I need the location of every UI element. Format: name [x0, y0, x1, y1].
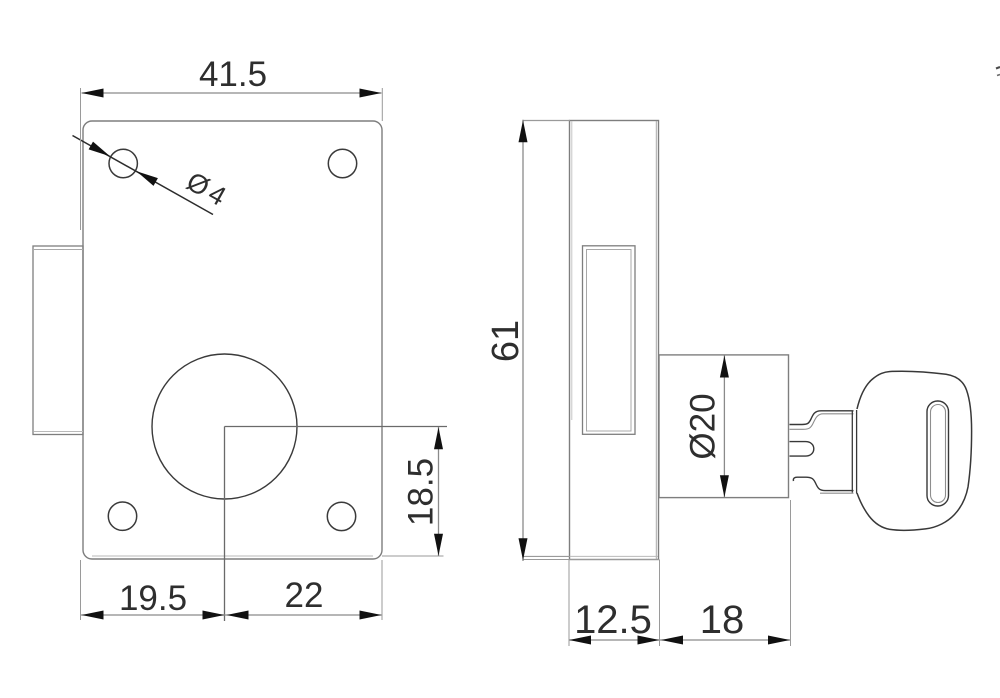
- dimension 41.5 arrow right: [360, 89, 382, 98]
- stray mark top right: [996, 67, 1000, 69]
- key shaft bottom inner: [820, 492, 854, 494]
- hole top-right: [328, 149, 356, 177]
- hole top-left: [109, 149, 137, 177]
- dimension 41.5 arrow left: [82, 89, 104, 98]
- key shaft bottom outer: [793, 477, 853, 490]
- leader arrow upper: [89, 142, 110, 157]
- dimension 41.5 extension right: [381, 88, 383, 121]
- key collar right line: [856, 410, 858, 494]
- lock plate outline (front view): [83, 121, 382, 559]
- key shaft top neck inner: [790, 414, 854, 430]
- leader arrow lower: [137, 171, 158, 186]
- dim 18 arrow left: [661, 636, 683, 645]
- key blade tab: [790, 442, 814, 457]
- side body inner right line: [655, 121, 657, 559]
- centerline vertical from bore center: [224, 427, 226, 622]
- dim 18 arrow right: [768, 636, 790, 645]
- tab top inner line: [34, 249, 83, 251]
- cylinder side rectangle: [659, 355, 789, 498]
- dim 61 arrow up: [519, 120, 528, 142]
- hole bottom-left: [108, 502, 136, 530]
- bottom dimension line: [81, 614, 382, 616]
- dimension 41.5 line: [82, 92, 382, 94]
- dim 18.5 arrow up: [434, 427, 443, 449]
- dim 18.5 line: [438, 427, 440, 556]
- svg-text:41.5: 41.5: [199, 55, 267, 94]
- plate bottom inner edge line: [92, 555, 373, 557]
- svg-text:18: 18: [700, 598, 745, 642]
- hole bottom-right: [327, 502, 355, 530]
- dim 61 top extension: [523, 120, 571, 122]
- dim 22 arrow right: [360, 611, 382, 620]
- key head outline: [857, 371, 972, 530]
- dim 12.5 arrow right: [638, 636, 660, 645]
- dim 61 bottom extension: [523, 555, 571, 557]
- centerline horizontal from bore center: [225, 426, 448, 428]
- left mounting tab: [33, 246, 83, 435]
- key ring slot inner: [931, 405, 946, 503]
- dim 20 line: [723, 356, 725, 498]
- side slot outer: [583, 246, 636, 434]
- side view body: [570, 121, 659, 560]
- side body inner left line: [571, 121, 573, 420]
- bottom right dim line: [569, 639, 790, 641]
- side slot inner: [587, 250, 632, 432]
- dim 22 arrow left: [227, 611, 249, 620]
- ext line left (12.5): [568, 560, 570, 647]
- dimension 41.5 extension left: [80, 88, 82, 230]
- svg-text:19.5: 19.5: [119, 579, 187, 618]
- svg-text:22: 22: [285, 576, 324, 615]
- dim 18.5 arrow down: [434, 534, 443, 556]
- dim 20 arrow down: [720, 475, 729, 497]
- dim 61 arrow down: [519, 538, 528, 560]
- bottom extension right: [381, 560, 383, 620]
- svg-text:18.5: 18.5: [402, 458, 441, 526]
- tab bottom inner line: [34, 431, 83, 433]
- dim 18.5 bottom extension: [382, 555, 444, 557]
- cylinder bore circle: [152, 354, 297, 499]
- svg-text:61: 61: [485, 320, 527, 362]
- key shaft top neck outer: [790, 411, 854, 425]
- svg-text:Ø4: Ø4: [182, 166, 232, 212]
- dim 61 line: [522, 120, 524, 561]
- side body inner bottom line: [570, 555, 658, 557]
- dim 19.5 arrow left: [82, 611, 104, 620]
- bottom extension left: [80, 560, 82, 620]
- ext line middle: [659, 560, 661, 647]
- key collar left line: [851, 411, 853, 493]
- svg-text:12.5: 12.5: [574, 598, 652, 642]
- key ring slot outer: [927, 401, 949, 506]
- svg-text:Ø20: Ø20: [684, 393, 723, 459]
- dim 19.5 arrow right: [203, 611, 225, 620]
- leader line for hole diameter: [73, 136, 214, 215]
- dim 20 arrow up: [720, 356, 729, 378]
- dim 12.5 arrow left: [569, 636, 591, 645]
- ext line right (18): [790, 500, 792, 646]
